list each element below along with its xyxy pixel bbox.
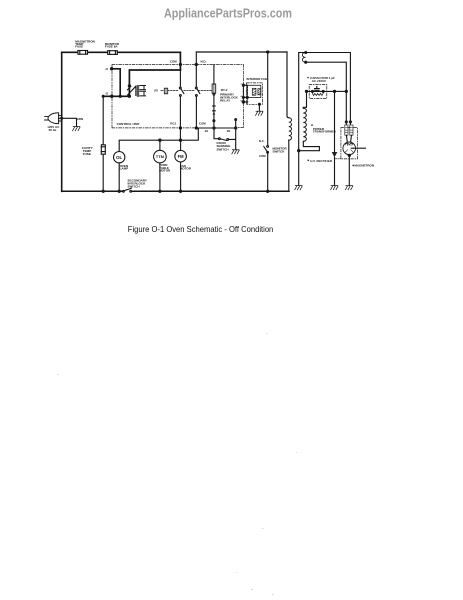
capacitor C1 symbol bbox=[307, 90, 335, 92]
svg-text:COM: COM bbox=[199, 122, 206, 126]
wire: lamp/motor feed line bbox=[119, 128, 198, 152]
label F3 bbox=[82, 146, 94, 156]
ground: magnetron bbox=[345, 186, 352, 190]
wire: primary bottom to bus bbox=[288, 140, 290, 191]
svg-text:N.C.: N.C. bbox=[259, 139, 265, 143]
node dots bus bbox=[102, 190, 104, 192]
dash-dot link from control box to interior unit bbox=[196, 65, 243, 85]
svg-text:MAGNETRON: MAGNETRON bbox=[354, 163, 374, 167]
svg-text:RELAY: RELAY bbox=[220, 98, 230, 102]
transformer T1 secondary windings bbox=[140, 86, 146, 90]
wire: top line B from S2 column to HV area bbox=[196, 51, 287, 53]
wires: below OL TTM FM to bus bbox=[119, 162, 180, 191]
transformer T2 HV secondary bbox=[303, 91, 306, 108]
fuse F3 cavity temp fuse bbox=[101, 145, 105, 154]
label RY2 bbox=[220, 88, 239, 102]
wire: HV transformer primary feed bbox=[287, 52, 289, 118]
svg-text:B2: B2 bbox=[227, 129, 231, 133]
rectifier D2 H.V. bbox=[334, 91, 336, 152]
interior unit dashed box bbox=[247, 83, 263, 104]
svg-text:AC 2100V: AC 2100V bbox=[312, 79, 327, 83]
motor FM fan motor bbox=[175, 150, 187, 162]
svg-text:RC1: RC1 bbox=[170, 122, 176, 126]
svg-text:FM: FM bbox=[178, 154, 185, 159]
label F1 bbox=[75, 39, 95, 48]
interior relay hatched blocks bbox=[252, 88, 256, 95]
wire: drop from top line into control unit COM bbox=[179, 52, 181, 70]
fuse F1 magnetron temp fuse bbox=[78, 51, 88, 55]
relay RY2 coil bbox=[212, 84, 216, 95]
capacitor C1 dashed box bbox=[309, 85, 327, 99]
wire: TTM tap bbox=[159, 140, 161, 150]
wire: filament inner line to magnetron bbox=[306, 62, 347, 124]
transformer T1 core bbox=[137, 85, 138, 96]
wire: HV secondary bottom lead bbox=[299, 141, 320, 150]
node dots interior bbox=[242, 84, 244, 86]
door sensing switch bbox=[214, 128, 219, 139]
node: junction top right bbox=[267, 51, 269, 53]
wire: capacitor output to rectifier and magnetron bbox=[335, 90, 347, 92]
svg-text:FUSE: FUSE bbox=[75, 45, 83, 49]
ground: rectifier bbox=[331, 186, 338, 190]
wire: top line L1 from plug column to control unit drop bbox=[62, 51, 181, 53]
terminal A1 and loop bbox=[112, 69, 121, 97]
svg-text:GRN: GRN bbox=[77, 117, 83, 121]
svg-text:TRANSFORMER: TRANSFORMER bbox=[313, 130, 337, 134]
thick feed wire up and right to COM drop bbox=[129, 70, 180, 96]
svg-text:COM: COM bbox=[259, 154, 266, 158]
wire: interior unit left feeder bbox=[242, 84, 244, 103]
relay contact switch S2 (N.O.) bbox=[195, 87, 199, 96]
svg-text:Figure O-1 Oven Schematic - Of: Figure O-1 Oven Schematic - Off Conditio… bbox=[128, 224, 274, 234]
svg-text:LAMP: LAMP bbox=[120, 167, 129, 171]
svg-text:OL: OL bbox=[116, 155, 122, 160]
relay contact switch S1 (COM) bbox=[179, 87, 183, 96]
svg-text:B1: B1 bbox=[205, 129, 209, 133]
interior unit inner block bbox=[247, 85, 261, 97]
relay RY1 coil with mech dashes bbox=[154, 88, 178, 94]
wire: line C filament/ground column bbox=[298, 53, 300, 186]
svg-text:SWITCH: SWITCH bbox=[273, 149, 285, 153]
monitor switch column bbox=[267, 52, 269, 191]
svg-text:MOTOR: MOTOR bbox=[180, 167, 192, 171]
ground: plug chassis ground bbox=[73, 127, 80, 131]
fuse F2 monitor fuse bbox=[108, 51, 118, 55]
transformer T2 filament winding bbox=[302, 52, 305, 62]
wire: filament top line to magnetron right bbox=[299, 53, 351, 125]
wire: green ground wire bbox=[59, 118, 77, 126]
svg-text:H.V. RECTIFIER: H.V. RECTIFIER bbox=[310, 159, 333, 163]
motor TTM turntable motor bbox=[154, 150, 167, 163]
wire: RY2 top lead bbox=[213, 65, 215, 85]
mech dashes S1-S2-RY2 bbox=[184, 89, 212, 91]
svg-text:MOTOR: MOTOR bbox=[159, 169, 171, 173]
wire: cavity fuse column bbox=[102, 96, 104, 191]
ground: transformer secondary bbox=[295, 186, 302, 190]
transformer T2 primary winding bbox=[289, 118, 292, 140]
control unit box (dash-dot) bbox=[112, 65, 198, 128]
wire: S1 output down to RC1 node bbox=[179, 96, 181, 140]
node dots control area bbox=[111, 68, 113, 70]
wire: FM tap bbox=[180, 140, 182, 150]
secondary interlock switch on bus bbox=[123, 188, 132, 192]
wire: interior unit bottom to ground bbox=[258, 104, 260, 111]
label F2 bbox=[105, 42, 120, 49]
svg-text:SWITCH: SWITCH bbox=[217, 147, 229, 151]
lamp OL oven lamp bbox=[114, 152, 125, 163]
ground: door sensing bbox=[232, 150, 239, 154]
svg-text:FUSE 8A: FUSE 8A bbox=[105, 45, 119, 49]
svg-text:TTM: TTM bbox=[156, 154, 164, 159]
svg-text:SWITCH: SWITCH bbox=[128, 184, 140, 188]
svg-text:N.O.: N.O. bbox=[201, 59, 207, 63]
terminal A2 wire bbox=[103, 95, 129, 97]
svg-text:COM: COM bbox=[170, 59, 177, 63]
transformer T1 (low voltage) primary bbox=[128, 85, 146, 96]
label power transformer bbox=[313, 127, 337, 134]
svg-text:(RY: (RY bbox=[154, 91, 158, 93]
wire: left vertical from top line to bottom bus bbox=[61, 52, 63, 191]
svg-text:CONTROL UNIT: CONTROL UNIT bbox=[117, 122, 140, 126]
wire: bottom contact line RC1/COM y128 bbox=[196, 127, 235, 129]
label plug bbox=[47, 125, 60, 132]
svg-text:AppliancePartsPros.com: AppliancePartsPros.com bbox=[164, 5, 292, 20]
choke L2 bbox=[350, 125, 353, 135]
bleeder resistor zigzag bbox=[312, 91, 323, 95]
magnetron V1 bbox=[346, 135, 351, 142]
choke L1 bbox=[345, 125, 348, 135]
plug 120V AC bbox=[45, 113, 62, 124]
svg-text:INTERIOR FAN: INTERIOR FAN bbox=[247, 77, 267, 81]
diode D1 on RY2 lead bbox=[213, 95, 215, 128]
svg-text:60 Hz: 60 Hz bbox=[49, 128, 57, 132]
wire: bottom neutral bus (gap for secondary interlock switch) bbox=[62, 190, 289, 192]
ground: interior unit bbox=[256, 111, 263, 115]
svg-text:FUSE: FUSE bbox=[83, 152, 91, 156]
magnetron dashed box bbox=[341, 128, 358, 159]
faint scan specks bbox=[57, 333, 297, 595]
wire: S2 column from top line B down to bottom node bbox=[195, 52, 197, 128]
